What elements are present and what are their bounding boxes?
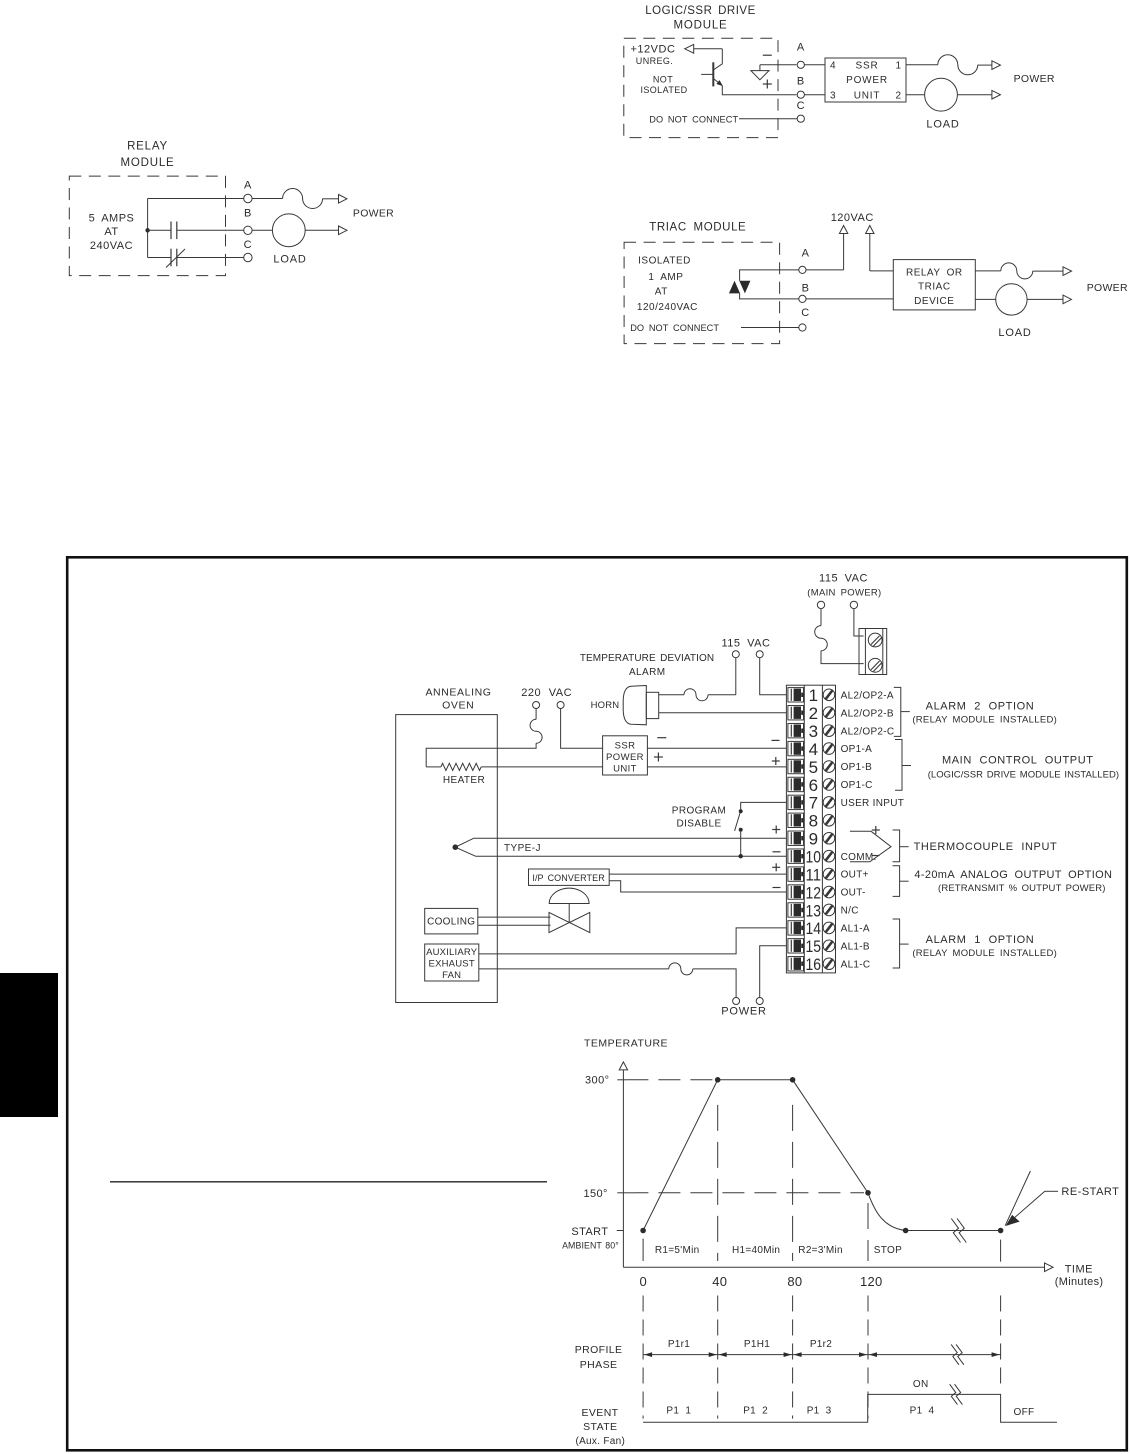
115VAC terminal right xyxy=(756,651,763,658)
terminal 5 OP1-B xyxy=(788,758,872,777)
svg-text:1: 1 xyxy=(809,686,818,705)
terminal C xyxy=(799,307,810,331)
120VAC arrow 2 xyxy=(866,226,874,271)
svg-text:P1 1: P1 1 xyxy=(666,1406,691,1417)
terminal 16 AL1-C xyxy=(788,955,871,974)
load L2 xyxy=(925,78,958,111)
page edge tab xyxy=(0,973,58,1117)
cooling box xyxy=(425,908,478,934)
gridline 0 xyxy=(642,1239,644,1419)
wire collector riser xyxy=(721,49,723,64)
svg-text:DO NOT CONNECT: DO NOT CONNECT xyxy=(630,323,719,333)
thermocouple polarity symbol xyxy=(850,831,891,862)
svg-text:4-20mA ANALOG OUTPUT OPTION: 4-20mA ANALOG OUTPUT OPTION xyxy=(914,869,1112,881)
svg-text:300°: 300° xyxy=(585,1075,609,1087)
wire horn bottom to terminal 2 xyxy=(659,712,786,714)
svg-text:R2=3'Min: R2=3'Min xyxy=(798,1245,843,1256)
wire triac to B xyxy=(740,293,799,299)
svg-text:MAIN CONTROL OUTPUT: MAIN CONTROL OUTPUT xyxy=(942,755,1094,767)
wire fuse to 115vac xyxy=(708,694,736,696)
svg-text:EXHAUST: EXHAUST xyxy=(429,959,475,970)
svg-text:5 AMPS: 5 AMPS xyxy=(89,213,135,225)
restart pointer line xyxy=(1005,1171,1030,1226)
wire do-not-connect to C xyxy=(739,118,797,120)
svg-text:POWER: POWER xyxy=(721,1006,767,1018)
wire terminal 15 to power xyxy=(760,946,787,998)
svg-text:AL1-B: AL1-B xyxy=(841,941,870,952)
terminal 9 xyxy=(788,830,835,849)
svg-text:ON: ON xyxy=(913,1379,929,1390)
svg-text:STATE: STATE xyxy=(583,1421,617,1433)
svg-text:4: 4 xyxy=(830,61,836,72)
terminal 10 COMM. xyxy=(788,848,877,867)
minus mark at ssr xyxy=(657,737,666,739)
relay NO contact K1 xyxy=(148,222,244,240)
svg-text:LOAD: LOAD xyxy=(998,327,1031,339)
logic/ssr dashed enclosure xyxy=(624,38,778,137)
svg-text:A: A xyxy=(244,180,252,192)
text rule xyxy=(110,1181,547,1183)
gridline 80 xyxy=(792,1105,794,1419)
main power terminal right xyxy=(850,601,857,608)
svg-text:14: 14 xyxy=(806,919,822,938)
wire fuse to arrow xyxy=(978,64,992,66)
wire fuse to heater xyxy=(426,743,536,767)
svg-text:ISOLATED: ISOLATED xyxy=(638,256,691,267)
wire main left drop xyxy=(820,609,822,626)
svg-text:13: 13 xyxy=(806,901,822,920)
svg-text:3: 3 xyxy=(809,722,818,741)
control valve V1 xyxy=(549,888,590,932)
wire triac to A xyxy=(740,270,799,281)
svg-text:P1 2: P1 2 xyxy=(743,1406,768,1417)
power terminal right xyxy=(756,998,763,1005)
profile node ramp1 top xyxy=(715,1077,721,1083)
wire 220 left drop xyxy=(535,709,537,720)
triac TR1 xyxy=(729,281,751,294)
svg-text:H1=40Min: H1=40Min xyxy=(732,1245,780,1256)
triac rating label xyxy=(637,256,698,313)
svg-text:(RELAY MODULE INSTALLED): (RELAY MODULE INSTALLED) xyxy=(912,715,1057,726)
wire horn top xyxy=(659,694,684,696)
wire to terminal A xyxy=(148,198,244,200)
svg-text:FAN: FAN xyxy=(442,970,461,981)
wire A to power xyxy=(252,198,283,200)
svg-text:B: B xyxy=(797,76,805,88)
wire fuse to fuseholder xyxy=(821,651,864,664)
node comm junction xyxy=(739,854,743,858)
event state label xyxy=(575,1407,625,1447)
svg-text:TRIAC MODULE: TRIAC MODULE xyxy=(649,221,746,233)
triac dashed enclosure xyxy=(624,242,780,343)
wire fan to terminal 14 xyxy=(479,928,787,954)
power arrow pin2 xyxy=(992,90,1001,99)
wire fuse to arrow xyxy=(1033,270,1063,272)
terminal B xyxy=(799,282,810,302)
svg-text:+12VDC: +12VDC xyxy=(631,44,676,56)
svg-text:ALARM 1 OPTION: ALARM 1 OPTION xyxy=(926,934,1035,946)
svg-text:COOLING: COOLING xyxy=(427,917,475,928)
svg-text:2: 2 xyxy=(809,704,818,723)
svg-text:ISOLATED: ISOLATED xyxy=(640,85,687,95)
wire fuse to arrow xyxy=(323,198,339,200)
svg-text:TEMPERATURE: TEMPERATURE xyxy=(584,1038,668,1050)
supply arrow to +12VDC xyxy=(685,44,723,53)
svg-text:POWER: POWER xyxy=(1014,73,1055,85)
300 deg dashed level xyxy=(626,1079,714,1081)
relay module dashed enclosure xyxy=(69,176,225,276)
heater resistor R1 xyxy=(426,763,602,786)
svg-text:C: C xyxy=(801,307,809,319)
svg-text:LOAD: LOAD xyxy=(273,254,306,266)
svg-text:I/P CONVERTER: I/P CONVERTER xyxy=(532,873,605,883)
x axis xyxy=(623,1263,1053,1272)
svg-text:120: 120 xyxy=(860,1274,883,1289)
profile node start xyxy=(640,1228,646,1234)
terminal 2 AL2/OP2-B xyxy=(788,704,894,723)
wire load to arrow xyxy=(305,229,338,231)
120VAC arrow 1 xyxy=(839,226,847,270)
fuse F7 xyxy=(669,963,693,975)
power arrow bottom xyxy=(1063,295,1072,304)
svg-text:OVEN: OVEN xyxy=(442,700,474,712)
fuse F3 xyxy=(1001,263,1033,279)
svg-text:AT: AT xyxy=(104,226,118,238)
TIME axis label xyxy=(1055,1263,1104,1288)
power arrow A xyxy=(339,195,348,204)
wire ssr minus to terminal 4 xyxy=(647,747,786,749)
terminal 8 xyxy=(788,812,835,831)
svg-text:RELAY OR: RELAY OR xyxy=(906,268,963,279)
wire load to arrow xyxy=(957,94,992,96)
svg-text:TIME: TIME xyxy=(1065,1263,1093,1275)
switch S1 program disable xyxy=(735,809,743,832)
wire main right to fuseholder xyxy=(854,609,864,636)
terminal A xyxy=(799,247,810,273)
terminal 1 AL2/OP2-A xyxy=(788,686,894,705)
svg-text:RE-START: RE-START xyxy=(1061,1186,1119,1198)
svg-text:15: 15 xyxy=(806,937,822,956)
svg-text:40: 40 xyxy=(712,1274,727,1289)
RE-START label and leader xyxy=(1006,1186,1120,1226)
svg-text:TRIAC: TRIAC xyxy=(918,282,951,293)
wire 115 right to terminal 1 xyxy=(760,658,787,695)
minus polarity mark xyxy=(763,54,772,56)
alarm 2 option bracket xyxy=(894,687,1057,736)
svg-text:PROFILE: PROFILE xyxy=(575,1344,623,1356)
svg-text:12: 12 xyxy=(806,883,822,902)
svg-text:THERMOCOUPLE INPUT: THERMOCOUPLE INPUT xyxy=(914,841,1058,853)
wire cooling to valve upper xyxy=(478,916,551,918)
ssr power unit U2 xyxy=(603,736,648,775)
terminal 12 OUT- xyxy=(788,883,866,902)
relay module title xyxy=(120,141,174,170)
svg-text:OP1-C: OP1-C xyxy=(841,780,873,791)
wire pin2 to load xyxy=(906,94,925,96)
break symbol on phase line xyxy=(951,1344,959,1364)
svg-text:PROGRAM: PROGRAM xyxy=(672,806,726,817)
wire terminal 7 to switch xyxy=(741,802,787,811)
event state waveform xyxy=(643,1394,1057,1422)
svg-text:16: 16 xyxy=(806,955,822,974)
wire load to arrow xyxy=(1027,298,1063,300)
150 deg dashed level xyxy=(626,1192,864,1194)
svg-text:A: A xyxy=(802,247,810,259)
svg-text:9: 9 xyxy=(809,830,818,849)
svg-text:UNIT: UNIT xyxy=(613,764,637,775)
svg-text:R1=5'Min: R1=5'Min xyxy=(655,1245,700,1256)
svg-text:1: 1 xyxy=(896,61,902,72)
svg-text:2: 2 xyxy=(896,90,902,101)
svg-text:LOGIC/SSR DRIVE: LOGIC/SSR DRIVE xyxy=(645,5,755,17)
power terminal left xyxy=(733,998,740,1005)
plus polarity mark xyxy=(763,83,772,85)
svg-text:USER INPUT: USER INPUT xyxy=(841,798,905,809)
terminal B xyxy=(797,76,805,99)
thermocouple TYPE-J xyxy=(453,838,541,856)
svg-text:RELAY: RELAY xyxy=(127,141,168,153)
terminal strip TB1 xyxy=(786,685,835,973)
profile node restart xyxy=(998,1228,1004,1234)
svg-text:NOT: NOT xyxy=(653,75,673,85)
svg-text:1 AMP: 1 AMP xyxy=(648,272,683,283)
300 deg label xyxy=(585,1075,626,1087)
terminal B xyxy=(244,208,252,235)
svg-text:TEMPERATURE DEVIATION: TEMPERATURE DEVIATION xyxy=(580,653,714,664)
minus mark terminal 12 xyxy=(773,887,781,889)
plus mark terminal 11 xyxy=(772,866,780,868)
svg-text:HORN: HORN xyxy=(591,700,620,711)
power arrow pin1 xyxy=(992,61,1001,70)
terminal 4 OP1-A xyxy=(788,740,872,759)
profile phase label xyxy=(575,1344,623,1371)
terminal 7 USER INPUT xyxy=(788,794,904,813)
svg-text:(RETRANSMIT % OUTPUT POWER): (RETRANSMIT % OUTPUT POWER) xyxy=(938,883,1106,894)
load L3 xyxy=(996,284,1027,315)
svg-text:MODULE: MODULE xyxy=(673,19,727,31)
power arrow B xyxy=(339,226,348,235)
svg-text:P1 3: P1 3 xyxy=(807,1406,832,1417)
220VAC terminal left xyxy=(533,702,540,709)
thermocouple input bracket xyxy=(893,830,1058,862)
wire 220 right to ssr xyxy=(561,709,603,749)
svg-text:80: 80 xyxy=(787,1274,802,1289)
relay or triac device box xyxy=(893,260,975,310)
svg-text:10: 10 xyxy=(806,848,822,867)
wire ssr plus to terminal 5 xyxy=(647,766,786,768)
NOT ISOLATED label xyxy=(640,75,687,96)
terminal C xyxy=(244,239,252,262)
terminal C xyxy=(797,100,805,122)
svg-text:B: B xyxy=(244,208,252,220)
wire pin1 out xyxy=(906,64,938,66)
svg-text:OUT-: OUT- xyxy=(841,888,866,899)
profile node 150 xyxy=(865,1190,871,1196)
wire tc plus to terminal 9 xyxy=(474,837,787,839)
svg-text:SSR: SSR xyxy=(615,741,636,752)
svg-text:OP1-B: OP1-B xyxy=(841,762,873,773)
svg-text:(RELAY MODULE INSTALLED): (RELAY MODULE INSTALLED) xyxy=(912,948,1057,959)
profile node ambient xyxy=(903,1228,909,1234)
svg-text:120VAC: 120VAC xyxy=(831,212,874,224)
wire out+ to terminal 11 xyxy=(609,873,786,875)
fuse F5 xyxy=(684,689,708,701)
svg-text:AL2/OP2-B: AL2/OP2-B xyxy=(841,708,894,719)
power arrow top xyxy=(1063,267,1072,276)
fuse F2 xyxy=(938,55,978,75)
svg-text:AL1-A: AL1-A xyxy=(841,923,870,934)
svg-text:4: 4 xyxy=(809,740,818,759)
terminal 14 AL1-A xyxy=(788,919,870,938)
svg-text:5: 5 xyxy=(809,758,818,777)
wire emitter to B xyxy=(722,85,796,94)
svg-text:ALARM 2 OPTION: ALARM 2 OPTION xyxy=(926,701,1035,713)
break symbol on profile xyxy=(951,1219,960,1243)
profile node hold end xyxy=(790,1077,796,1083)
svg-text:C: C xyxy=(797,100,805,112)
svg-text:8: 8 xyxy=(809,812,818,831)
svg-text:P1H1: P1H1 xyxy=(744,1339,770,1350)
svg-text:DO NOT CONNECT: DO NOT CONNECT xyxy=(649,114,738,124)
115VAC terminal left xyxy=(732,651,739,658)
svg-text:7: 7 xyxy=(809,794,818,813)
wire B to load xyxy=(252,229,272,231)
plus mark terminal 9 xyxy=(772,829,780,831)
svg-text:220 VAC: 220 VAC xyxy=(521,687,572,699)
wire fan bottom to fuse xyxy=(479,968,669,970)
phase dimension line xyxy=(643,1352,1001,1357)
relay rating label 5 AMPS AT 240VAC xyxy=(89,213,135,252)
svg-text:P1r2: P1r2 xyxy=(810,1339,832,1350)
plus mark tc xyxy=(872,829,880,831)
svg-text:AMBIENT 80°: AMBIENT 80° xyxy=(562,1240,619,1250)
relay common wire xyxy=(147,199,149,258)
wire cooling to valve lower xyxy=(478,924,551,926)
minus mark tc xyxy=(872,855,880,857)
svg-text:(Minutes): (Minutes) xyxy=(1055,1276,1104,1288)
svg-text:0: 0 xyxy=(640,1274,648,1289)
ground symbol xyxy=(751,65,769,80)
svg-text:STOP: STOP xyxy=(874,1245,902,1256)
svg-text:OP1-A: OP1-A xyxy=(841,744,873,755)
svg-text:PHASE: PHASE xyxy=(580,1359,618,1371)
wire out- to terminal 12 xyxy=(609,881,786,892)
relay NC contact K1b xyxy=(148,249,244,268)
terminal 6 OP1-C xyxy=(788,776,873,795)
alarm 1 option bracket xyxy=(893,919,1057,968)
plus mark at ssr xyxy=(654,756,663,758)
svg-text:ALARM: ALARM xyxy=(629,667,665,678)
svg-text:P1 4: P1 4 xyxy=(910,1406,935,1417)
wire B to pin3 xyxy=(804,94,825,96)
wire ground to A xyxy=(760,64,797,66)
svg-text:115 VAC: 115 VAC xyxy=(819,572,868,584)
150 deg label xyxy=(583,1188,626,1200)
svg-text:SSR: SSR xyxy=(856,61,879,72)
svg-text:AT: AT xyxy=(655,287,668,298)
terminal 3 AL2/OP2-C xyxy=(788,722,895,741)
wire switch to comm xyxy=(740,832,742,857)
wire 115 left drop xyxy=(735,658,737,695)
wire A to pin4 xyxy=(804,64,825,66)
profile curve xyxy=(643,1080,1001,1231)
wire 120VAC to device xyxy=(870,270,894,272)
START label xyxy=(571,1226,623,1238)
svg-text:MODULE: MODULE xyxy=(120,157,174,169)
svg-text:3: 3 xyxy=(830,90,836,101)
gridline 40 xyxy=(717,1105,719,1419)
svg-text:A: A xyxy=(797,42,805,54)
svg-text:ANNEALING: ANNEALING xyxy=(425,686,491,698)
terminal A xyxy=(244,180,252,203)
main control output bracket xyxy=(895,740,1119,791)
svg-text:DISABLE: DISABLE xyxy=(676,818,721,829)
terminal A xyxy=(797,42,805,69)
wire device out bottom xyxy=(975,298,995,300)
svg-text:LOAD: LOAD xyxy=(926,118,959,130)
svg-text:TYPE-J: TYPE-J xyxy=(504,843,541,854)
svg-text:UNIT: UNIT xyxy=(854,90,881,101)
svg-text:C: C xyxy=(244,239,252,251)
terminal 13 N/C xyxy=(788,901,859,920)
svg-text:POWER: POWER xyxy=(353,208,394,220)
fuse F4 xyxy=(530,719,542,743)
logic/ssr drive module title xyxy=(645,5,755,32)
temperature deviation alarm label xyxy=(580,653,714,678)
svg-text:HEATER: HEATER xyxy=(443,775,485,786)
wire fuse to power xyxy=(693,969,736,998)
220VAC terminal right xyxy=(557,702,564,709)
svg-text:6: 6 xyxy=(809,776,818,795)
svg-text:EVENT: EVENT xyxy=(581,1407,618,1419)
svg-text:B: B xyxy=(802,282,810,294)
minus mark at terminal 4 xyxy=(772,739,780,741)
svg-text:P1r1: P1r1 xyxy=(668,1339,690,1350)
svg-text:115 VAC: 115 VAC xyxy=(722,638,771,650)
annealing oven box xyxy=(396,686,498,1002)
svg-text:240VAC: 240VAC xyxy=(90,240,133,252)
svg-text:120/240VAC: 120/240VAC xyxy=(637,302,698,313)
svg-text:OUT+: OUT+ xyxy=(841,870,869,881)
svg-text:OFF: OFF xyxy=(1014,1407,1035,1418)
svg-text:AL2/OP2-A: AL2/OP2-A xyxy=(841,690,894,701)
ssr power unit U1 xyxy=(825,58,906,102)
svg-text:(MAIN POWER): (MAIN POWER) xyxy=(807,588,881,599)
main power terminal left xyxy=(817,601,824,608)
plus mark at terminal 5 xyxy=(772,760,780,762)
svg-text:AL1-C: AL1-C xyxy=(841,959,871,970)
wire A to 120VAC xyxy=(806,269,844,271)
svg-text:(LOGIC/SSR DRIVE MODULE INSTAL: (LOGIC/SSR DRIVE MODULE INSTALLED) xyxy=(928,770,1119,781)
svg-text:POWER: POWER xyxy=(846,75,888,86)
program disable label xyxy=(672,806,726,830)
svg-text:11: 11 xyxy=(806,865,822,884)
svg-text:POWER: POWER xyxy=(606,752,644,763)
115 VAC main power label xyxy=(807,572,881,598)
y axis xyxy=(619,1062,627,1267)
gridline 120 xyxy=(867,1203,869,1419)
svg-text:(Aux. Fan): (Aux. Fan) xyxy=(575,1436,625,1447)
application diagram border xyxy=(67,557,1127,1450)
I/P converter box xyxy=(529,869,610,885)
fuse F6 xyxy=(815,626,828,651)
wire do-not-connect to C xyxy=(741,327,799,329)
analog output bracket xyxy=(893,866,1113,897)
svg-text:N/C: N/C xyxy=(841,906,859,917)
gridline restart xyxy=(1000,1240,1002,1388)
svg-text:AUXILIARY: AUXILIARY xyxy=(426,947,478,958)
svg-text:UNREG.: UNREG. xyxy=(636,56,673,66)
